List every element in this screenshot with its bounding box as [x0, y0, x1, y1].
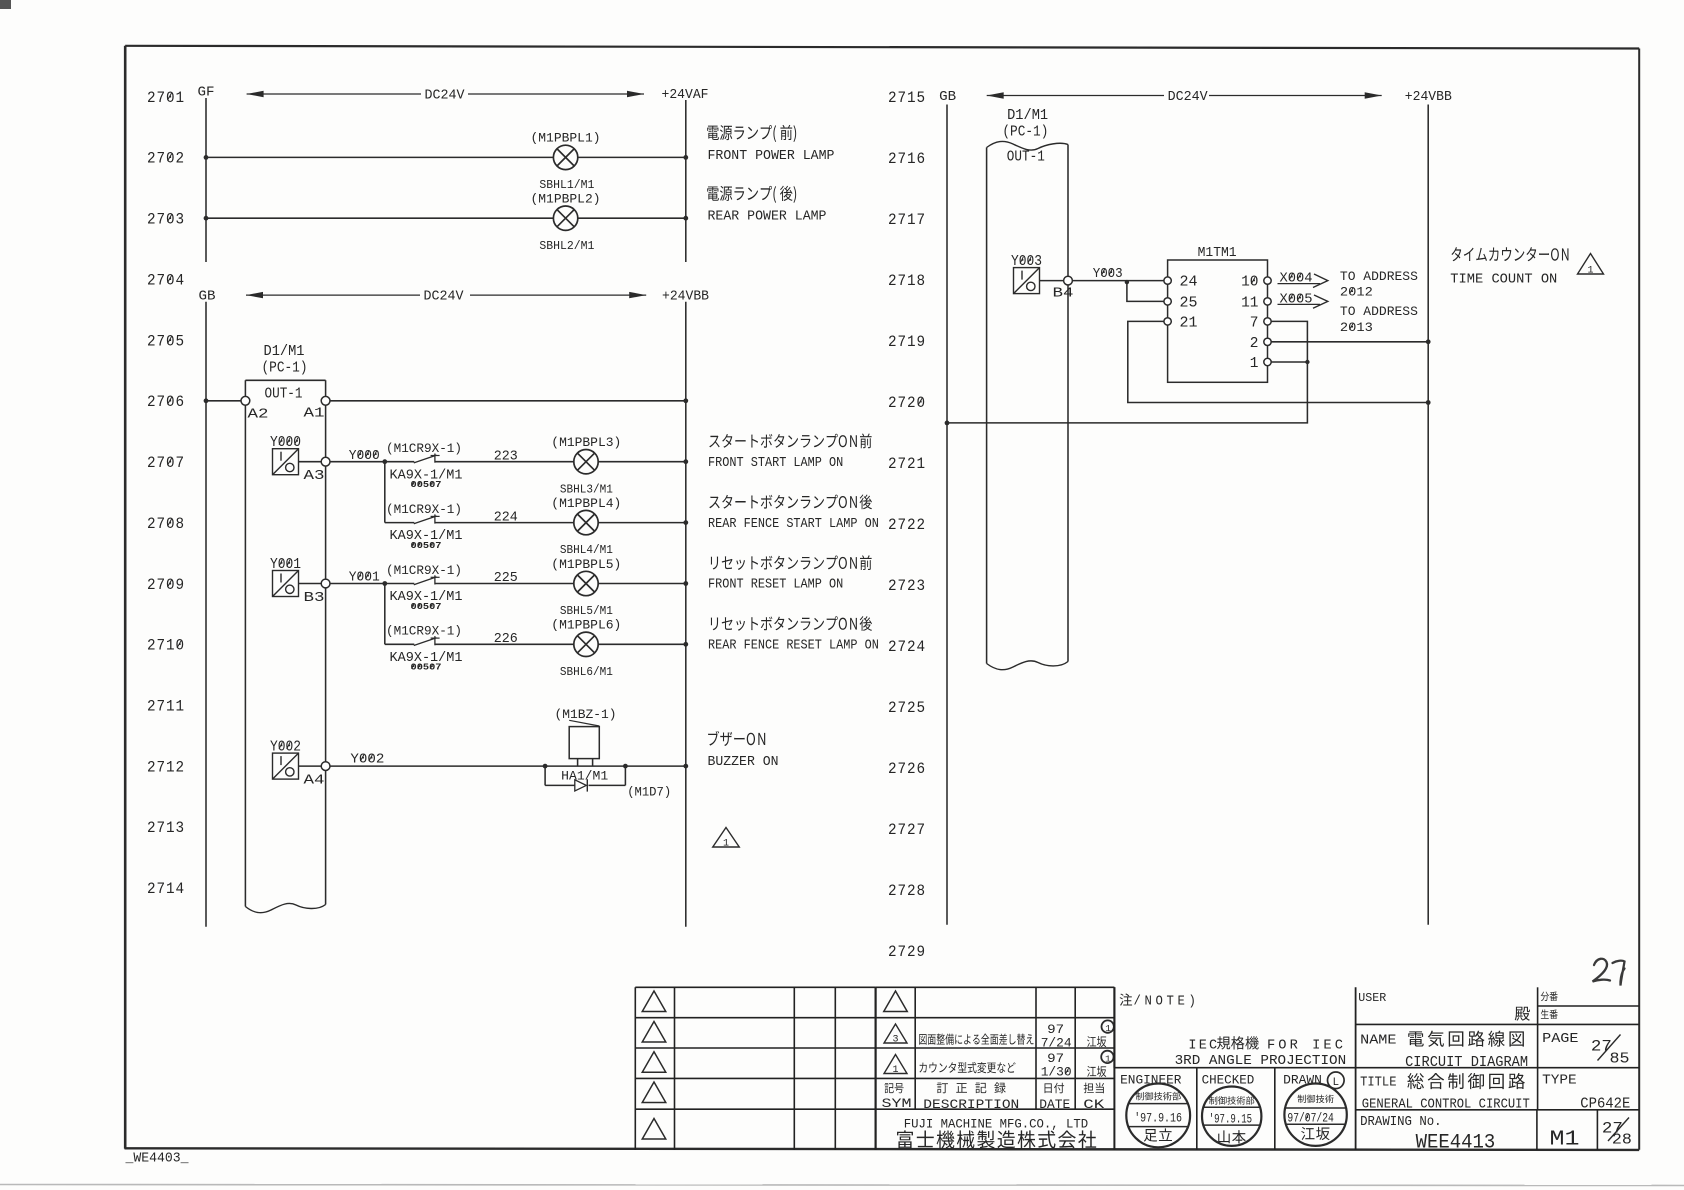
title 電気回路線図 [1408, 1031, 1524, 1047]
lamp M1PBPL4 (SBHL4/M1) [574, 510, 598, 534]
wire B4 to M1TM1 pin 24 [1072, 280, 1164, 282]
svg-text:1/30: 1/30 [1041, 1065, 1072, 1080]
wire lamp to rail row 2709 [598, 583, 686, 585]
svg-text:2702: 2702 [147, 150, 185, 168]
svg-text:PAGE: PAGE [1542, 1032, 1578, 1047]
lamp M1PBPL1 (SBHL1/M1) [553, 145, 577, 169]
svg-text:'97.9.15: '97.9.15 [1209, 1112, 1252, 1126]
svg-text:_WE4403_: _WE4403_ [125, 1152, 190, 1167]
DC24V bus arrow section1 [247, 91, 264, 97]
svg-text:1: 1 [1105, 1053, 1111, 1064]
svg-text:CK: CK [1083, 1097, 1104, 1112]
lamp M1PBPL2 (SBHL2/M1) [553, 206, 577, 230]
svg-text:2715: 2715 [888, 89, 926, 107]
svg-text:Y000: Y000 [270, 435, 301, 451]
DC24V bus arrow right [987, 92, 1004, 98]
wire contact to lamp row 2708 [435, 522, 574, 524]
svg-text:NAME: NAME [1360, 1034, 1396, 1049]
drawn circled L [1328, 1072, 1345, 1089]
revision triangle left row 5 [642, 1119, 666, 1140]
svg-text:FRONT POWER LAMP: FRONT POWER LAMP [708, 149, 835, 164]
svg-text:TO ADDRESS: TO ADDRESS [1340, 304, 1418, 319]
svg-text:(M1PBPL3): (M1PBPL3) [551, 435, 621, 450]
svg-text:SBHL6/M1: SBHL6/M1 [560, 665, 613, 679]
PLC unit D1/M1 (PC-1) OUT-1 box right [987, 141, 1068, 669]
wire pin7 loop to GB rail [947, 321, 1307, 423]
svg-text:7: 7 [1250, 315, 1259, 331]
svg-text:2705: 2705 [147, 332, 185, 350]
pin 10 M1TM1 right [1264, 277, 1271, 284]
output Y003 I/O box [1014, 268, 1040, 294]
svg-text:2719: 2719 [888, 333, 926, 351]
svg-text:2710: 2710 [147, 637, 185, 655]
svg-text:GENERAL CONTROL CIRCUIT: GENERAL CONTROL CIRCUIT [1362, 1098, 1530, 1113]
revision triangle right row 1 [884, 991, 908, 1012]
revision header 記号 SYM [884, 1083, 903, 1093]
revision triangle left row 2 [642, 1022, 666, 1043]
lamp M1PBPL5 (SBHL5/M1) [574, 571, 598, 595]
svg-text:(M1PBPL5): (M1PBPL5) [551, 557, 621, 572]
svg-text:B4: B4 [1053, 285, 1074, 301]
svg-text:D1/M1: D1/M1 [264, 344, 305, 360]
svg-text:CIRCUIT DIAGRAM: CIRCUIT DIAGRAM [1405, 1055, 1528, 1071]
svg-text:FRONT RESET LAMP ON: FRONT RESET LAMP ON [708, 578, 843, 593]
label 殿 [1515, 1007, 1530, 1021]
contact KA9X-1/M1 row 2710 [385, 643, 415, 645]
svg-text:2727: 2727 [888, 821, 926, 839]
output Y001 I/O box [273, 571, 299, 597]
svg-text:00507: 00507 [411, 479, 442, 490]
svg-text:IEC: IEC [1188, 1038, 1219, 1053]
svg-text:00507: 00507 [411, 662, 442, 673]
svg-text:OUT-1: OUT-1 [1007, 150, 1045, 166]
svg-text:DESCRIPTION: DESCRIPTION [923, 1097, 1019, 1112]
svg-text:TO ADDRESS: TO ADDRESS [1340, 269, 1418, 284]
wire lamp to rail row 2710 [598, 643, 686, 645]
annotation ブザーON [708, 731, 765, 746]
revision triangle 3 [884, 1024, 907, 1043]
svg-text:A1: A1 [304, 405, 325, 421]
svg-text:10: 10 [1241, 275, 1258, 291]
svg-text:(PC-1): (PC-1) [1002, 125, 1048, 141]
svg-text:1: 1 [893, 1065, 899, 1076]
svg-text:1: 1 [1250, 356, 1259, 372]
svg-text:Y002: Y002 [270, 740, 301, 756]
bus +24VBB rail right half [1427, 105, 1429, 925]
svg-text:1: 1 [1588, 266, 1594, 277]
svg-text:1: 1 [1105, 1023, 1111, 1034]
wire B3 to contact junction [330, 583, 385, 585]
note block border [1113, 987, 1115, 1067]
svg-text:2724: 2724 [888, 638, 926, 656]
svg-text:25: 25 [1180, 295, 1198, 311]
svg-text:21: 21 [1180, 315, 1198, 331]
svg-text:REAR POWER LAMP: REAR POWER LAMP [708, 210, 827, 225]
svg-text:A3: A3 [304, 468, 325, 484]
wire pin1 to pin7 vertical [1271, 361, 1307, 363]
wire rung 2712 buzzer [330, 765, 686, 767]
revision table left [635, 986, 875, 988]
svg-text:REAR FENCE RESET LAMP ON: REAR FENCE RESET LAMP ON [708, 639, 879, 654]
output Y000 I/O box [273, 449, 299, 475]
svg-text:00507: 00507 [411, 540, 442, 551]
revision row 2: カウンタ型式変更など 97 1/30 江坂 [919, 1062, 1015, 1073]
terminal A4 [321, 762, 330, 771]
contact KA9X-1/M1 row 2707 [385, 461, 415, 463]
svg-text:CP642E: CP642E [1580, 1097, 1630, 1113]
pin 7 M1TM1 right [1264, 318, 1271, 325]
branch Y003 to pin 25 [1127, 281, 1164, 302]
svg-text:2: 2 [1250, 336, 1259, 352]
svg-text:(PC-1): (PC-1) [262, 361, 308, 377]
stamps row borders [1196, 1068, 1198, 1150]
pin 1 M1TM1 right [1264, 358, 1271, 365]
svg-text:Y003: Y003 [1011, 254, 1042, 270]
svg-text:(M1CR9X-1): (M1CR9X-1) [386, 563, 462, 578]
svg-text:2717: 2717 [888, 211, 926, 229]
svg-text:2709: 2709 [147, 576, 185, 594]
svg-text:2718: 2718 [888, 272, 926, 290]
svg-text:HA1/M1: HA1/M1 [561, 769, 608, 784]
buzzer M1BZ-1 [569, 727, 599, 759]
wire pin21 loop to +24VBB rail [1128, 321, 1428, 402]
revision triangle left row 1 [642, 991, 666, 1012]
wire A3 to contact junction [330, 461, 385, 463]
svg-text:TIME COUNT ON: TIME COUNT ON [1450, 273, 1557, 288]
svg-text:11: 11 [1241, 295, 1258, 311]
annotation FRONT RESET LAMP ON [711, 555, 872, 570]
svg-text:2704: 2704 [147, 271, 185, 289]
svg-text:2701: 2701 [147, 89, 185, 107]
svg-text:SBHL5/M1: SBHL5/M1 [560, 604, 613, 618]
bus +24VBB right rail [685, 302, 687, 927]
wire rung 2702 [206, 156, 553, 158]
svg-text:Y003: Y003 [1093, 266, 1123, 282]
pin 21 M1TM1 [1164, 318, 1171, 325]
svg-text:2012: 2012 [1340, 284, 1373, 299]
svg-text:2707: 2707 [147, 454, 185, 472]
svg-text:2714: 2714 [147, 880, 185, 898]
note triangle 1 right [1578, 254, 1604, 275]
svg-text:2716: 2716 [888, 150, 926, 168]
svg-text:Y002: Y002 [350, 752, 384, 768]
svg-text:2713: 2713 [147, 819, 185, 837]
svg-text:FOR IEC: FOR IEC [1267, 1038, 1346, 1053]
DC24V bus arrow section2 [246, 292, 263, 298]
pin 24 M1TM1 [1164, 277, 1171, 284]
wire A1 to +24VBB rail [330, 400, 686, 402]
timer block M1TM1 [1168, 260, 1268, 382]
svg-text:USER: USER [1358, 992, 1386, 1005]
bus GB rail right half [946, 105, 948, 925]
svg-text:SBHL1/M1: SBHL1/M1 [539, 178, 594, 192]
revision table right [876, 986, 1115, 988]
svg-text:2721: 2721 [888, 455, 926, 473]
wire lamp to rail row 2707 [598, 461, 686, 463]
svg-text:B3: B3 [304, 590, 325, 606]
svg-text:Y001: Y001 [270, 557, 301, 573]
svg-text:3RD ANGLE PROJECTION: 3RD ANGLE PROJECTION [1175, 1054, 1347, 1069]
wire Y003 box to B4 [1040, 280, 1064, 282]
contact KA9X-1/M1 row 2709 [385, 583, 415, 585]
svg-text:2720: 2720 [888, 394, 926, 412]
terminal A2 [241, 396, 250, 405]
svg-text:FUJI MACHINE MFG.CO., LTD: FUJI MACHINE MFG.CO., LTD [904, 1116, 1089, 1131]
annotation タイムカウンターON [1451, 247, 1568, 261]
svg-text:3: 3 [893, 1035, 899, 1046]
svg-text:SBHL3/M1: SBHL3/M1 [560, 482, 613, 496]
svg-text:WEE4413: WEE4413 [1416, 1132, 1496, 1155]
svg-text:(M1PBPL6): (M1PBPL6) [551, 618, 621, 633]
svg-text:M1: M1 [1550, 1129, 1580, 1152]
annotation FRONT START LAMP ON [709, 433, 871, 448]
svg-text:+24VBB: +24VBB [1405, 89, 1452, 105]
svg-text:(M1D7): (M1D7) [627, 785, 671, 800]
svg-text:2726: 2726 [888, 760, 926, 778]
svg-text:2711: 2711 [147, 698, 185, 716]
annotation REAR FENCE START LAMP ON [709, 494, 872, 509]
svg-text:DATE: DATE [1039, 1097, 1070, 1112]
svg-text:2703: 2703 [147, 211, 185, 229]
svg-text:00507: 00507 [411, 601, 442, 612]
bus GF left rail [205, 98, 207, 262]
svg-text:(M1CR9X-1): (M1CR9X-1) [386, 502, 462, 517]
wire left rail to A2 [206, 400, 241, 402]
title 総合制御回路 [1407, 1073, 1525, 1089]
wire Y000 box to A3 [299, 461, 322, 463]
terminal B3 [321, 579, 330, 588]
note label 注/NOTE) [1120, 993, 1132, 1005]
svg-text:2722: 2722 [888, 516, 926, 534]
wire pin2 to +24VBB rail [1271, 341, 1428, 343]
output Y002 I/O box [273, 753, 299, 779]
svg-text:2723: 2723 [888, 577, 926, 595]
wire rung 2703 [206, 217, 553, 219]
svg-text:DC24V: DC24V [424, 289, 465, 305]
terminal B4 [1064, 276, 1073, 285]
lamp M1PBPL3 (SBHL3/M1) [574, 450, 598, 474]
stamp DRAWN 制御技術 97/07/24 江坂 [1284, 1084, 1346, 1146]
revision header 担当 CK [1084, 1083, 1104, 1094]
svg-text:(M1CR9X-1): (M1CR9X-1) [386, 624, 462, 639]
svg-text:SYM: SYM [882, 1096, 912, 1111]
svg-text:L: L [1333, 1077, 1340, 1089]
svg-text:85: 85 [1610, 1051, 1630, 1067]
svg-text:FRONT START LAMP ON: FRONT START LAMP ON [708, 456, 843, 471]
wire Y002 box to A4 [299, 765, 322, 767]
svg-text:REAR FENCE START LAMP ON: REAR FENCE START LAMP ON [708, 517, 879, 532]
svg-text:2706: 2706 [147, 393, 185, 411]
svg-text:BUZZER ON: BUZZER ON [708, 755, 779, 770]
revision triangle 1 table [884, 1055, 907, 1074]
terminal A3 [321, 457, 330, 466]
wire contact to lamp row 2709 [435, 583, 574, 585]
svg-text:24: 24 [1180, 275, 1198, 291]
svg-text:TYPE: TYPE [1542, 1073, 1577, 1088]
annotation REAR FENCE RESET LAMP ON [711, 616, 872, 631]
scanner edge line [0, 1185, 1684, 1186]
svg-text:GB: GB [199, 290, 216, 305]
svg-text:2712: 2712 [147, 758, 185, 776]
svg-text:2729: 2729 [888, 943, 926, 961]
svg-text:28: 28 [1612, 1133, 1632, 1149]
wire Y001 box to B3 [299, 583, 322, 585]
PLC unit D1/M1 (PC-1) OUT-1 box [245, 380, 325, 912]
diode M1D7 [575, 780, 587, 791]
revision row 3: 図面整備による全面差し替え 97 7/24 江坂 [919, 1034, 1033, 1045]
svg-text:A2: A2 [248, 406, 269, 422]
revision header 日付 DATE [1045, 1083, 1065, 1094]
bus GB left rail [205, 302, 207, 927]
handwritten page 27 [1593, 959, 1625, 986]
wire contact to lamp row 2707 [435, 461, 574, 463]
stamp CHECKED 制御技術部 97.9.15 山本 [1202, 1087, 1261, 1146]
svg-text:+24VAF: +24VAF [662, 87, 709, 103]
annotation 電源ランプ(後) [707, 186, 796, 203]
wire contact to lamp row 2710 [435, 643, 574, 645]
note triangle 1 left [713, 828, 740, 848]
svg-text:SBHL2/M1: SBHL2/M1 [539, 239, 594, 253]
label 生番 [1541, 1009, 1558, 1019]
svg-text:OUT-1: OUT-1 [265, 387, 303, 403]
svg-text:'97.9.16: '97.9.16 [1134, 1112, 1182, 1126]
stamp ENGINEER 制御技術部 97.9.16 足立 [1126, 1084, 1190, 1148]
branch vertical Y000 [384, 462, 386, 523]
company name 富士機械製造株式会社 [897, 1130, 1096, 1148]
svg-text:/NOTE): /NOTE) [1134, 994, 1200, 1009]
svg-text:2708: 2708 [147, 515, 185, 533]
pin 2 M1TM1 right [1264, 338, 1271, 345]
svg-text:97/07/24: 97/07/24 [1287, 1112, 1333, 1126]
svg-text:D1/M1: D1/M1 [1007, 108, 1048, 124]
svg-text:2013: 2013 [1340, 320, 1373, 335]
svg-text:2725: 2725 [888, 699, 926, 717]
pin 25 M1TM1 [1164, 298, 1171, 305]
diode M1D7 branch [544, 766, 546, 785]
svg-text:1: 1 [723, 839, 729, 850]
svg-text:7/24: 7/24 [1041, 1036, 1072, 1051]
svg-text:(M1PBPL4): (M1PBPL4) [551, 496, 621, 511]
bus +24VAF right rail [685, 100, 687, 262]
annotation 電源ランプ(前) [707, 125, 796, 142]
svg-text:(M1BZ-1): (M1BZ-1) [555, 707, 617, 722]
svg-text:2728: 2728 [888, 882, 926, 900]
svg-text:TITLE: TITLE [1360, 1075, 1396, 1090]
info block borders [1355, 987, 1357, 1150]
revision header 訂正記録 DESCRIPTION [937, 1082, 1006, 1093]
svg-text:DC24V: DC24V [425, 88, 466, 104]
terminal A1 [321, 396, 330, 405]
label 分番 [1541, 992, 1558, 1002]
revision triangle left row 3 [642, 1052, 666, 1073]
lamp M1PBPL6 (SBHL6/M1) [574, 632, 598, 656]
svg-text:A4: A4 [304, 773, 325, 789]
page frame [125, 46, 1639, 49]
revision triangle left row 4 [642, 1082, 666, 1103]
contact KA9X-1/M1 row 2708 [385, 522, 415, 524]
wire lamp to rail row 2708 [598, 522, 686, 524]
svg-text:M1TM1: M1TM1 [1198, 245, 1237, 261]
svg-text:DRAWING No.: DRAWING No. [1360, 1115, 1442, 1130]
svg-text:(M1PBPL2): (M1PBPL2) [531, 191, 601, 206]
branch vertical Y001 [384, 584, 386, 645]
pin 11 M1TM1 right [1264, 298, 1271, 305]
svg-text:(M1PBPL1): (M1PBPL1) [531, 131, 601, 146]
svg-text:SBHL4/M1: SBHL4/M1 [560, 543, 613, 557]
svg-text:CHECKED: CHECKED [1202, 1073, 1255, 1088]
svg-text:(M1CR9X-1): (M1CR9X-1) [386, 441, 462, 456]
svg-text:GB: GB [939, 90, 956, 105]
svg-text:DC24V: DC24V [1168, 89, 1209, 105]
